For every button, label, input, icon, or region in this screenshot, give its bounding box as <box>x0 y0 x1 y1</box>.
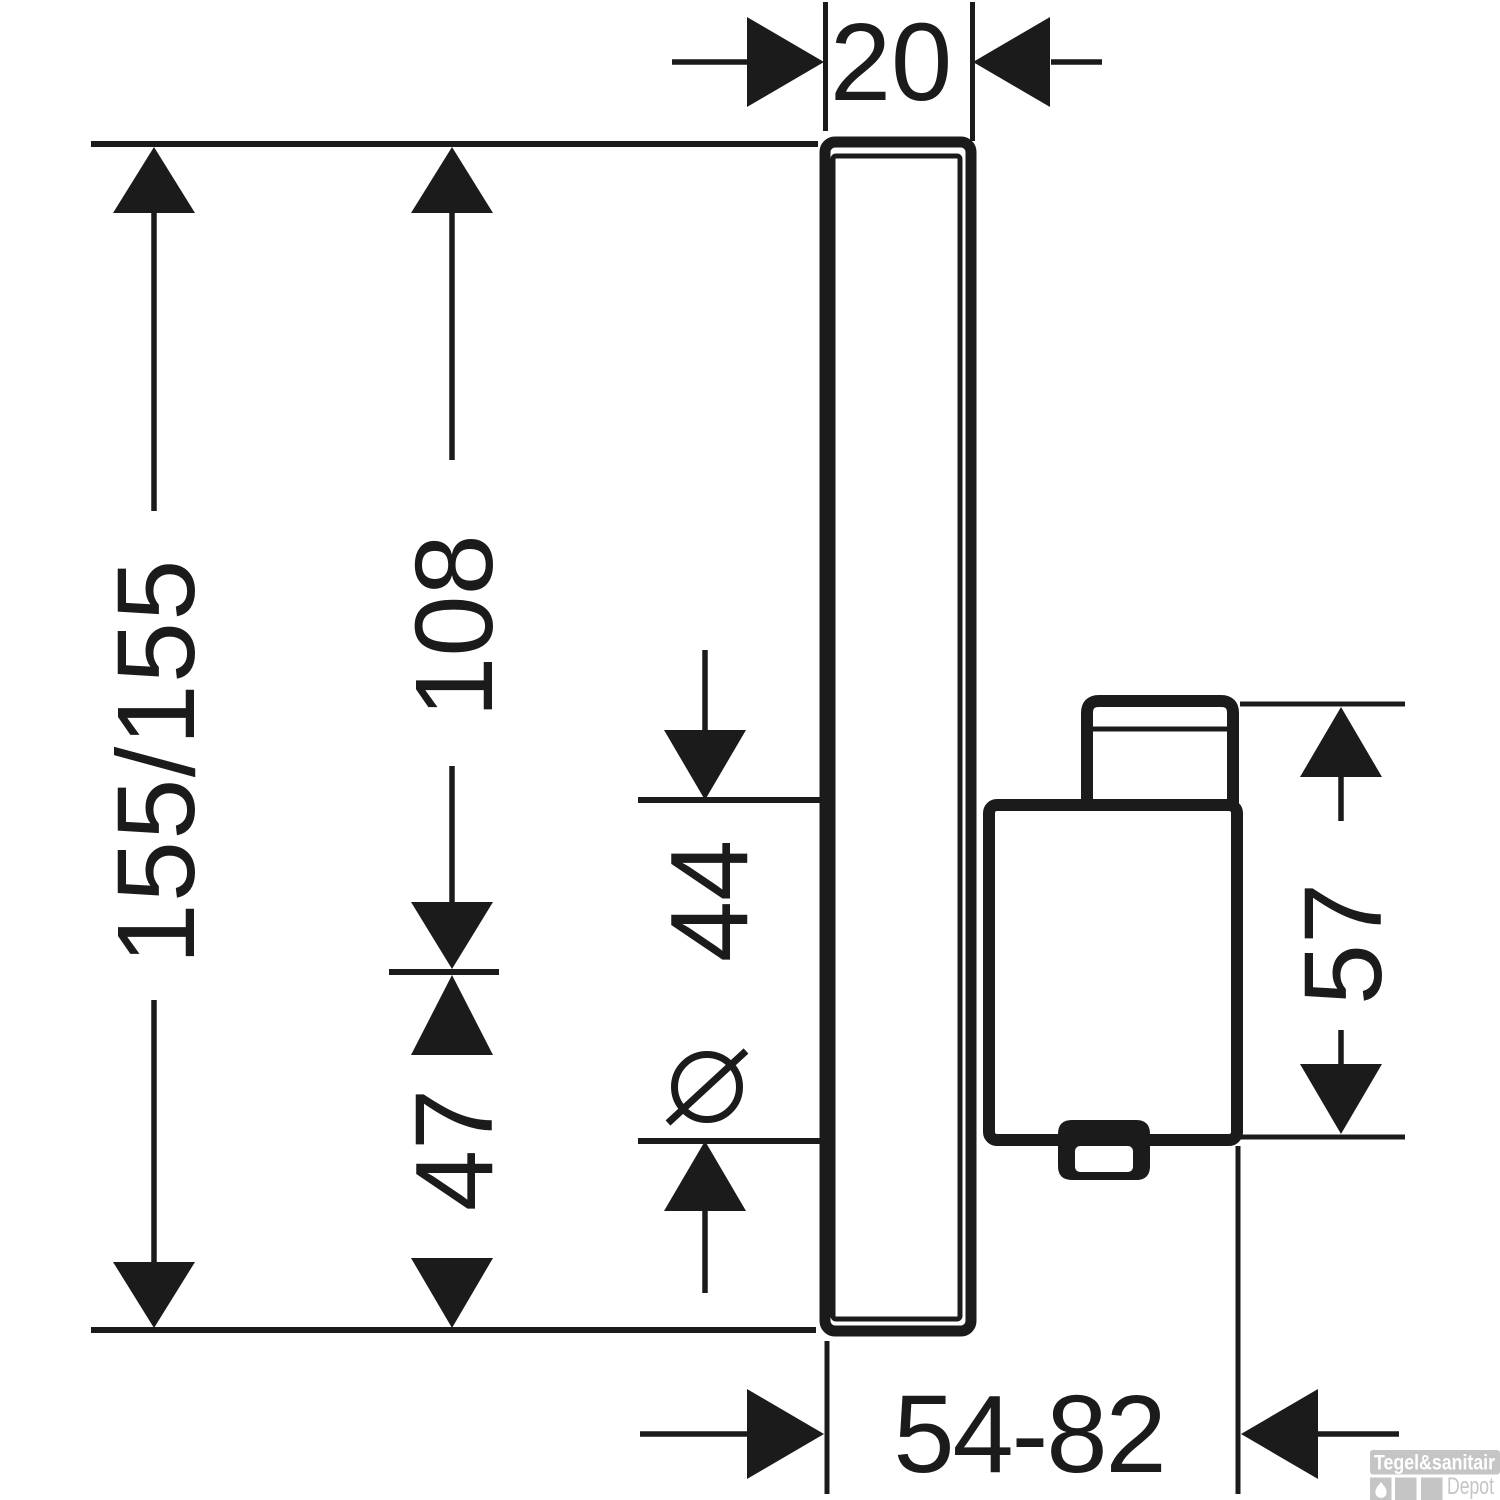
svg-text:44: 44 <box>648 840 771 962</box>
svg-text:47: 47 <box>393 1089 516 1211</box>
svg-text:54-82: 54-82 <box>893 1373 1164 1496</box>
svg-text:20: 20 <box>830 1 952 124</box>
svg-text:155/155: 155/155 <box>95 560 218 965</box>
svg-text:57: 57 <box>1282 883 1405 1005</box>
svg-text:108: 108 <box>393 534 516 718</box>
svg-text:Depot: Depot <box>1447 1473 1494 1500</box>
svg-text:Tegel&sanitair: Tegel&sanitair <box>1374 1452 1495 1475</box>
